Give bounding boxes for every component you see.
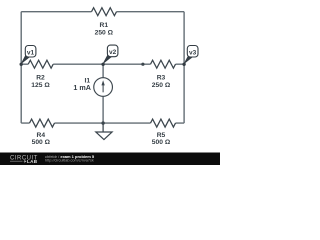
svg-text:v1: v1 [27,49,35,56]
svg-text:250 Ω: 250 Ω [152,82,171,89]
svg-text:125 Ω: 125 Ω [31,82,50,89]
resistor R5 [151,119,176,127]
node dot mid-right [141,63,144,66]
node v1 flag [20,46,36,67]
svg-text:R2: R2 [36,74,45,81]
svg-text:LAB: LAB [27,159,38,164]
resistor R4 [30,119,55,127]
resistor R1 [92,8,117,16]
node dot bottom-center [101,121,104,124]
svg-text:R3: R3 [157,74,166,81]
svg-text:R1: R1 [100,22,109,29]
svg-text:v3: v3 [189,49,197,56]
wire top rail [21,11,184,13]
svg-text:1 mA: 1 mA [73,83,91,92]
svg-text:http://circuitlab.com/c/nva7sk: http://circuitlab.com/c/nva7sk [45,159,94,163]
wire middle rail [21,63,184,65]
svg-text:250 Ω: 250 Ω [95,29,114,36]
watermark bar [0,153,220,166]
wire left rail [20,12,22,123]
current source I1 [73,77,112,96]
wire right rail [183,12,185,123]
wire current source branch [102,64,104,123]
node v2 flag [101,45,118,66]
node v3 flag [182,46,198,67]
resistor R3 [151,60,176,68]
ground [96,123,112,140]
svg-text:500 Ω: 500 Ω [32,139,51,146]
svg-text:v2: v2 [109,49,117,56]
wire bottom rail [21,122,184,124]
svg-text:500 Ω: 500 Ω [152,139,171,146]
resistor R2 [28,60,53,68]
